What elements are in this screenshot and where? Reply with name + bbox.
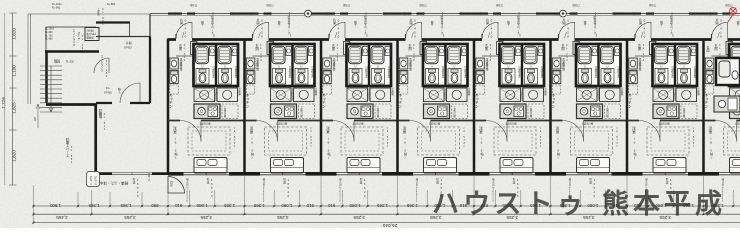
svg-text:1,825: 1,825	[12, 102, 17, 114]
stairs	[40, 66, 62, 112]
FL level label column	[45, 28, 55, 41]
dim row C line	[34, 222, 740, 224]
hall south door arc	[120, 83, 140, 103]
svg-text:3,255: 3,255	[277, 215, 289, 220]
svg-text:ハウストゥ: ハウストゥ	[432, 189, 588, 219]
svg-text:1,080: 1,080	[196, 203, 208, 208]
eave wall over hall	[96, 21, 130, 23]
svg-text:Fix: Fix	[106, 86, 110, 90]
svg-text:ポーチ: ポーチ	[77, 31, 80, 40]
dim extension lines	[34, 176, 734, 223]
svg-text:1,365: 1,365	[88, 203, 100, 208]
right edge bath box	[716, 58, 740, 85]
svg-text:門扉: 門扉	[170, 180, 173, 187]
unit 6	[551, 3, 628, 203]
unit 4	[398, 3, 475, 203]
svg-text:26,040: 26,040	[382, 222, 397, 228]
svg-text:990: 990	[151, 203, 159, 208]
FL callout box	[87, 172, 100, 187]
gate arc	[168, 177, 185, 194]
unit 5	[474, 3, 551, 203]
svg-text:FL-511: FL-511	[103, 112, 106, 131]
svg-text:7,726: 7,726	[1, 97, 7, 109]
svg-text:1,365: 1,365	[253, 203, 265, 208]
svg-text:郵便受: 郵便受	[87, 36, 95, 40]
unit 3	[321, 3, 398, 203]
svg-text:FL-651: FL-651	[70, 145, 73, 164]
dim row A ticks	[32, 205, 735, 208]
svg-text:1,365: 1,365	[120, 203, 132, 208]
svg-text:1,900: 1,900	[49, 203, 61, 208]
svg-text:910: 910	[306, 203, 314, 208]
left block window	[112, 173, 152, 175]
svg-text:FL-1091: FL-1091	[90, 175, 93, 185]
svg-text:片開: 片開	[126, 41, 132, 45]
svg-text:階段: 階段	[54, 59, 61, 64]
dim row B line	[34, 213, 740, 215]
svg-text:FL-561: FL-561	[148, 172, 151, 181]
dim row A numbers	[49, 203, 723, 208]
svg-text:エントランス: エントランス	[72, 29, 76, 47]
dim row B ticks	[32, 213, 705, 216]
hall entrance door arc	[94, 58, 109, 73]
svg-text:07415: 07415	[104, 91, 112, 95]
svg-text:FL-1001: FL-1001	[52, 2, 62, 6]
svg-text:FL-250: FL-250	[66, 61, 75, 64]
svg-text:玄関: 玄関	[706, 45, 710, 53]
survey marker red	[728, 8, 736, 22]
svg-text:1,365: 1,365	[224, 203, 236, 208]
svg-text:2,465: 2,465	[56, 215, 68, 220]
svg-text:3,255: 3,255	[200, 215, 212, 220]
svg-text:3,255: 3,255	[124, 215, 136, 220]
unit 8	[704, 3, 740, 203]
svg-text:UP: UP	[33, 117, 37, 121]
svg-text:1,080: 1,080	[587, 203, 599, 208]
right edge kitchen counter	[714, 96, 740, 112]
dim chain left vertical	[9, 13, 17, 185]
svg-text:駐車スペース: 駐車スペース	[65, 137, 69, 158]
svg-text:FL-1761: FL-1761	[95, 175, 98, 185]
svg-text:エントランス: エントランス	[100, 55, 104, 72]
svg-text:1,820: 1,820	[12, 150, 17, 162]
porch eave line	[46, 27, 96, 52]
grid marker circle A	[305, 10, 312, 17]
porch walls thick	[45, 52, 99, 104]
unit 7	[627, 3, 704, 203]
svg-text:上部庇: 上部庇	[97, 7, 100, 16]
svg-text:2列3段: 2列3段	[87, 29, 95, 33]
svg-text:1,080: 1,080	[349, 203, 361, 208]
svg-text:FL-991: FL-991	[52, 6, 61, 10]
left boundary thin lines	[28, 14, 31, 104]
svg-text:側溝・ぶた・排水: 側溝・ぶた・排水	[99, 181, 128, 186]
svg-text:910: 910	[327, 203, 335, 208]
unit 2	[245, 3, 322, 203]
svg-text:熊本平成: 熊本平成	[602, 188, 726, 219]
corridor line	[150, 13, 740, 15]
svg-text:FL-881: FL-881	[107, 2, 116, 6]
svg-text:3,255: 3,255	[353, 215, 365, 220]
building corner walls	[46, 105, 168, 174]
svg-text:1,100: 1,100	[12, 65, 17, 77]
svg-text:1,365: 1,365	[406, 203, 418, 208]
dim row B numbers	[56, 215, 671, 220]
svg-text:07420: 07420	[124, 46, 132, 50]
svg-text:駐輪場: 駐輪場	[98, 108, 102, 119]
svg-text:FL-881: FL-881	[101, 8, 104, 26]
svg-text:FL-680: FL-680	[45, 38, 53, 41]
grid marker circle B	[560, 10, 567, 17]
hall walls	[96, 14, 150, 37]
svg-text:1,365: 1,365	[377, 203, 389, 208]
svg-text:集合SKA: 集合SKA	[87, 32, 97, 36]
svg-text:1,820: 1,820	[12, 28, 17, 40]
svg-text:1,080: 1,080	[281, 203, 293, 208]
svg-text:910: 910	[174, 203, 182, 208]
svg-text:16520: 16520	[136, 178, 140, 198]
dim row A line	[34, 205, 740, 207]
unit 1	[168, 3, 245, 203]
mailbox unit	[85, 28, 99, 41]
svg-text:FL-450: FL-450	[105, 60, 108, 78]
svg-text:物入: 物入	[118, 87, 121, 94]
